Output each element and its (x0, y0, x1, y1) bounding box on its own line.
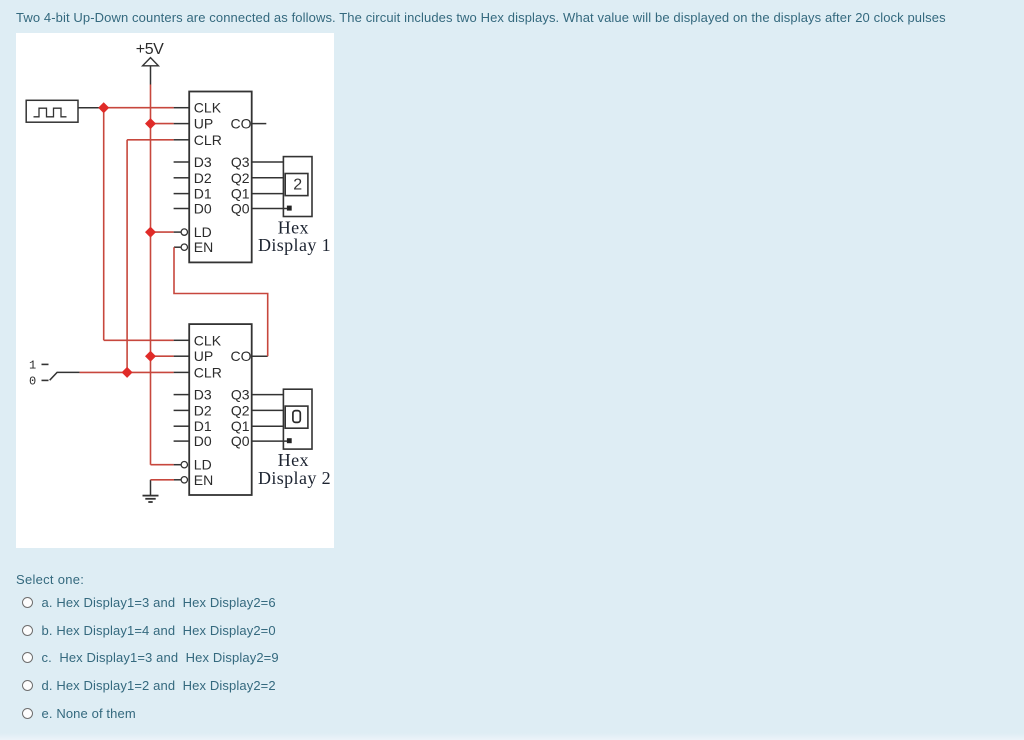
svg-text:D0: D0 (194, 433, 212, 449)
svg-text:D2: D2 (194, 170, 212, 186)
svg-text:EN: EN (194, 239, 213, 255)
svg-text:D0: D0 (194, 201, 212, 217)
svg-text:D3: D3 (194, 387, 212, 403)
svg-text:LD: LD (194, 224, 212, 240)
svg-text:CLK: CLK (194, 332, 222, 348)
svg-text:0: 0 (29, 374, 36, 388)
svg-text:Q1: Q1 (231, 418, 250, 434)
svg-text:Display 2: Display 2 (258, 468, 331, 488)
svg-text:Q3: Q3 (231, 387, 250, 403)
svg-text:UP: UP (194, 348, 213, 364)
svg-text:Q2: Q2 (231, 402, 250, 418)
svg-text:CO: CO (231, 116, 252, 132)
svg-text:D3: D3 (194, 154, 212, 170)
svg-text:LD: LD (194, 457, 212, 473)
svg-text:CLR: CLR (194, 132, 222, 148)
svg-text:EN: EN (194, 472, 213, 488)
svg-text:CLK: CLK (194, 100, 222, 116)
svg-text:CLR: CLR (194, 364, 222, 380)
svg-text:D1: D1 (194, 418, 212, 434)
svg-text:CO: CO (231, 348, 252, 364)
svg-text:Q0: Q0 (231, 433, 250, 449)
svg-text:Q3: Q3 (231, 154, 250, 170)
svg-text:1: 1 (29, 358, 36, 372)
svg-text:+5V: +5V (136, 41, 164, 58)
svg-text:Q1: Q1 (231, 186, 250, 202)
svg-text:D2: D2 (194, 402, 212, 418)
svg-text:Q0: Q0 (231, 201, 250, 217)
svg-text:Display 1: Display 1 (258, 235, 331, 255)
svg-text:UP: UP (194, 116, 213, 132)
svg-text:2: 2 (293, 176, 302, 193)
svg-text:Q2: Q2 (231, 170, 250, 186)
svg-text:D1: D1 (194, 186, 212, 202)
